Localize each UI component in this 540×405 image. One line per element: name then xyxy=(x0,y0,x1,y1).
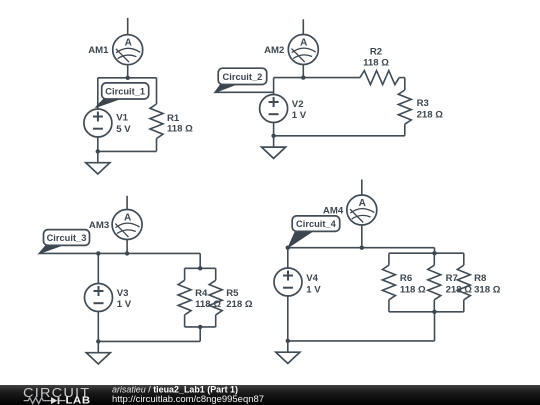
svg-text:R3: R3 xyxy=(417,98,429,109)
svg-text:1 V: 1 V xyxy=(306,284,321,295)
svg-text:A: A xyxy=(359,198,366,209)
svg-text:Circuit_3: Circuit_3 xyxy=(47,233,87,243)
svg-text:AM2: AM2 xyxy=(264,45,284,56)
svg-text:AM1: AM1 xyxy=(88,45,109,56)
svg-text:V4: V4 xyxy=(306,273,318,284)
svg-text:V2: V2 xyxy=(292,99,304,110)
svg-text:5 V: 5 V xyxy=(116,124,131,135)
svg-text:118 Ω: 118 Ω xyxy=(363,58,389,69)
svg-text:V1: V1 xyxy=(116,113,128,124)
svg-text:R4: R4 xyxy=(195,288,208,299)
svg-text:Circuit_4: Circuit_4 xyxy=(296,219,337,229)
svg-text:AM4: AM4 xyxy=(323,205,344,216)
svg-text:A: A xyxy=(300,38,307,49)
svg-text:218 Ω: 218 Ω xyxy=(226,299,253,310)
svg-text:218 Ω: 218 Ω xyxy=(446,284,473,295)
svg-text:118 Ω: 118 Ω xyxy=(400,284,426,295)
svg-text:R1: R1 xyxy=(167,113,180,124)
svg-text:arisatieu / tieua2_Lab1 (Part: arisatieu / tieua2_Lab1 (Part 1) xyxy=(112,384,238,394)
svg-text:R8: R8 xyxy=(474,273,487,284)
svg-text:http://circuitlab.com/c8nge995: http://circuitlab.com/c8nge995eqn87 xyxy=(112,394,264,405)
svg-text:LAB: LAB xyxy=(66,395,91,405)
svg-text:R6: R6 xyxy=(400,273,412,284)
svg-text:1 V: 1 V xyxy=(117,299,132,310)
svg-text:AM3: AM3 xyxy=(89,220,109,231)
svg-text:R2: R2 xyxy=(370,46,382,57)
svg-text:A: A xyxy=(125,38,132,49)
svg-text:R7: R7 xyxy=(446,273,458,284)
svg-text:R5: R5 xyxy=(226,288,239,299)
svg-text:318 Ω: 318 Ω xyxy=(474,284,501,295)
svg-text:V3: V3 xyxy=(117,288,129,299)
svg-text:Circuit_2: Circuit_2 xyxy=(223,72,263,82)
svg-text:A: A xyxy=(124,213,131,224)
svg-text:118 Ω: 118 Ω xyxy=(195,299,221,310)
svg-text:218 Ω: 218 Ω xyxy=(417,109,444,120)
svg-text:1 V: 1 V xyxy=(292,110,307,121)
svg-text:Circuit_1: Circuit_1 xyxy=(105,86,145,96)
svg-text:118 Ω: 118 Ω xyxy=(167,124,193,135)
